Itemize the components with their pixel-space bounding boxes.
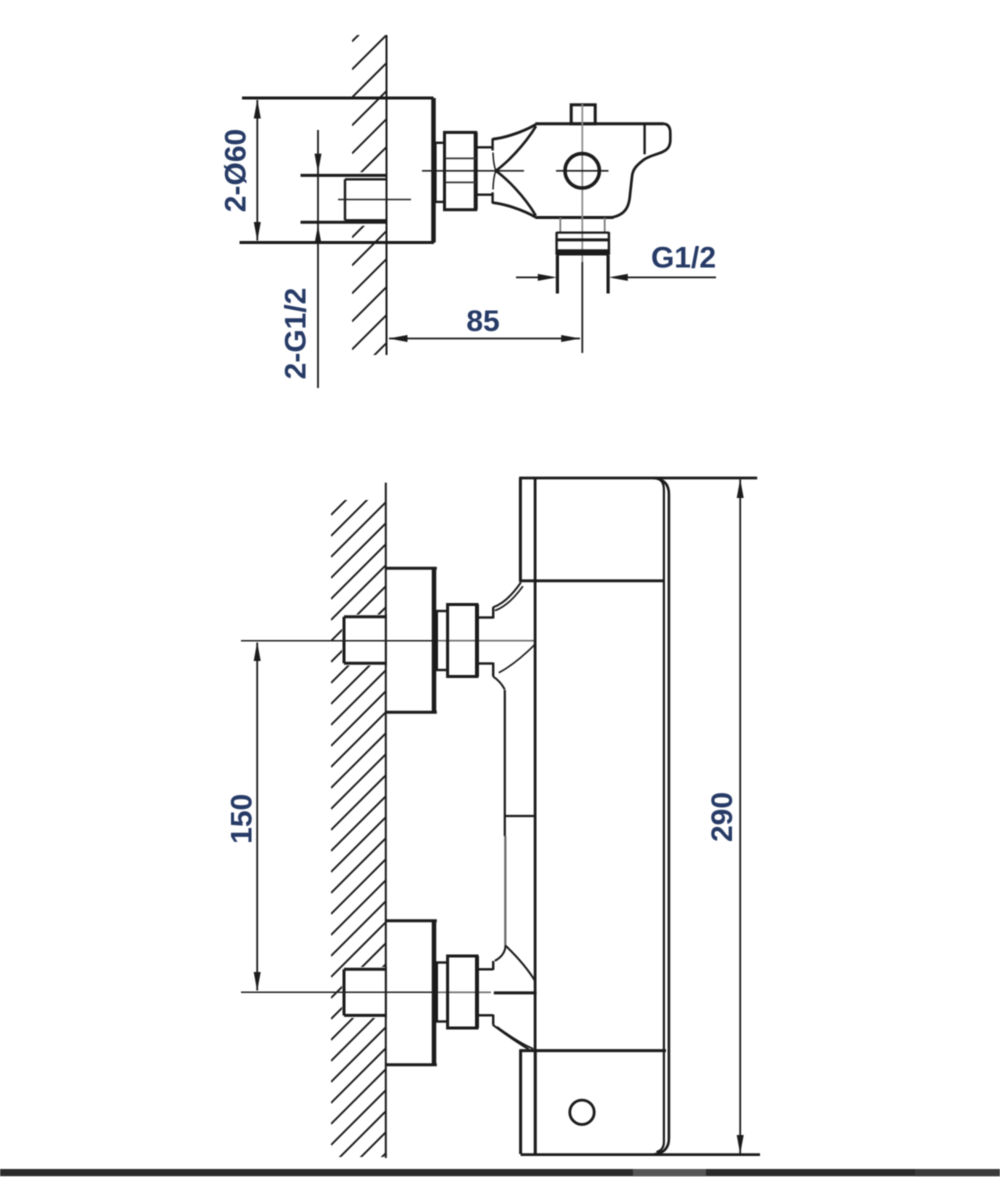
supply pipe stub behind wall (side view) [298, 172, 387, 226]
upper escutcheon flange (front view) [386, 568, 437, 712]
svg-text:290: 290 [706, 792, 739, 842]
upper union hex nut (front view) [448, 605, 477, 677]
union axis centerline (side view) [422, 170, 524, 172]
temperature dial circle (side view) [556, 154, 609, 188]
lower escutcheon flange (front view) [386, 921, 437, 1065]
lower union collar (front view) [437, 963, 448, 1022]
lower union flare (front view) [493, 993, 537, 1049]
lower supply stub behind wall (front view) [342, 967, 386, 1019]
union spacer ring (side view) [476, 147, 493, 194]
mixer top cap (front view) [519, 478, 757, 581]
screw hole in bottom cap (front view) [570, 1100, 594, 1124]
escutcheon wall flange (side view) [240, 98, 435, 243]
svg-text:2-G1/2: 2-G1/2 [280, 288, 313, 380]
dimension 2-G1/2 leader [315, 130, 322, 388]
valve body (side view) [535, 124, 670, 218]
upper union collar (front view) [437, 611, 448, 670]
dimension 85 [389, 335, 581, 342]
wall hatching (front view) [331, 460, 386, 1177]
svg-text:2-Ø60: 2-Ø60 [220, 129, 253, 212]
dimension G1/2 [516, 274, 716, 281]
upper union spacer (front view) [477, 607, 493, 677]
lower mount centerline (front view) [241, 991, 491, 993]
wall line (side view) [386, 35, 388, 355]
svg-text:150: 150 [225, 794, 258, 844]
upper union flare (front view) [493, 582, 535, 689]
wall hatching (side view) [352, 7, 387, 378]
svg-text:G1/2: G1/2 [651, 242, 716, 275]
shower hose outlet (side view) [557, 218, 610, 294]
mounting boss edge (front view) [495, 690, 536, 981]
svg-text:85: 85 [466, 305, 499, 338]
union collar (side view) [435, 143, 444, 202]
vertical centerline of valve (side view) [581, 104, 583, 353]
trumpet bell transition (side view) [493, 124, 536, 217]
union hex nut (side view) [445, 132, 476, 209]
supply pipe centerline (side view) [338, 199, 411, 201]
mixer body front face lines (front view) [654, 478, 669, 1154]
dimension 290 [737, 479, 744, 1154]
dimension 150 [254, 642, 261, 991]
upper mount centerline (front view) [241, 640, 535, 642]
lower union spacer (front view) [477, 961, 493, 1025]
lower union hex nut (front view) [448, 956, 477, 1028]
bottom page border [0, 1169, 1000, 1176]
mixer body left edge (front view) [534, 478, 537, 1155]
mixer bottom cap (front view) [519, 1051, 760, 1155]
stop screw on top (side view) [571, 105, 595, 124]
upper supply stub behind wall (front view) [342, 614, 386, 666]
wall line (front view) [385, 483, 387, 1158]
dimension 2-O60 [254, 100, 261, 242]
